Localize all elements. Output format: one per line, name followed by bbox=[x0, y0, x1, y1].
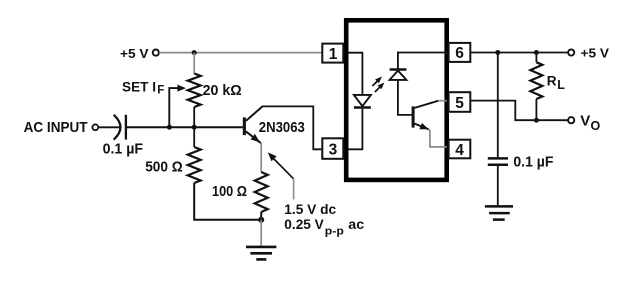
photodiode D2 wire to pin 6 bbox=[398, 53, 447, 69]
wire 20k bottom bbox=[193, 107, 195, 127]
wire +5V rail to pin 1 bbox=[159, 52, 322, 54]
svg-text:+5 V: +5 V bbox=[120, 46, 149, 61]
phototransistor Q2 collector bbox=[415, 101, 439, 108]
ground right bbox=[485, 205, 513, 208]
capacitor C 0.1uF straight plate bbox=[125, 115, 127, 140]
junction dot RL top bbox=[534, 50, 539, 55]
photodiode D2 cathode bar bbox=[390, 68, 407, 70]
svg-text:R: R bbox=[547, 74, 557, 89]
wire 20k top bbox=[193, 53, 195, 74]
terminal AC input bbox=[92, 124, 98, 130]
svg-text:3: 3 bbox=[329, 142, 338, 159]
svg-text:F: F bbox=[157, 85, 164, 97]
wire emitter down bbox=[260, 143, 262, 172]
svg-text:AC INPUT: AC INPUT bbox=[24, 119, 88, 136]
junction dot bypass cap bbox=[495, 50, 500, 55]
phototransistor Q2 base bar bbox=[412, 106, 415, 127]
wire AC input to capacitor bbox=[98, 126, 119, 128]
terminal VO bbox=[568, 117, 574, 123]
junction dot RL bottom bbox=[534, 118, 539, 123]
resistor RL bbox=[535, 53, 537, 63]
wire photodiode to base bbox=[398, 80, 412, 115]
pin 4 box bbox=[449, 140, 471, 159]
wire pin 6 to +5V right bbox=[470, 52, 568, 54]
svg-text:p-p: p-p bbox=[325, 225, 344, 237]
pin 6 box bbox=[449, 43, 471, 62]
photodiode D2 triangle bbox=[390, 71, 407, 80]
svg-text:2N3063: 2N3063 bbox=[259, 119, 305, 136]
junction dot ground bus bbox=[258, 217, 264, 223]
resistor 100 Ohm bbox=[255, 172, 268, 212]
transistor Q1 emitter with arrow bbox=[246, 131, 261, 143]
pin 1 box bbox=[322, 44, 343, 63]
transistor Q1 2N3063 base bar bbox=[243, 117, 246, 135]
svg-text:V: V bbox=[580, 112, 590, 129]
wire bypass cap bottom bbox=[497, 166, 499, 205]
svg-text:ac: ac bbox=[348, 216, 364, 232]
junction dot SET arrow bbox=[167, 125, 172, 130]
wire collector to pin 5 bbox=[438, 100, 447, 102]
wire LED to pin3 bbox=[349, 109, 363, 150]
wire pin 5 to VO bbox=[470, 101, 568, 121]
pin 3 box bbox=[322, 138, 343, 159]
resistor 500 Ohm bbox=[188, 147, 201, 183]
phototransistor Q2 emitter with arrow bbox=[415, 124, 429, 130]
wire pin1 to LED bbox=[349, 53, 363, 95]
light arrow 2 bbox=[375, 87, 380, 92]
svg-text:1.5 V dc: 1.5 V dc bbox=[284, 201, 336, 217]
wire 500 bottom to ground bus bbox=[194, 183, 261, 220]
svg-text:0.1 µF: 0.1 µF bbox=[103, 141, 144, 157]
LED D1 triangle bbox=[354, 95, 371, 106]
wire emitter to pin 4 bbox=[429, 129, 447, 147]
svg-text:500 Ω: 500 Ω bbox=[145, 160, 183, 176]
capacitor C 0.1uF curved plate bbox=[114, 115, 121, 140]
svg-text:5: 5 bbox=[455, 95, 464, 112]
LED D1 cathode bar bbox=[354, 106, 371, 108]
svg-text:O: O bbox=[591, 119, 601, 133]
wire bypass cap top bbox=[497, 53, 499, 158]
svg-text:0.25 V: 0.25 V bbox=[284, 216, 324, 232]
terminal +5V left bbox=[153, 50, 159, 56]
svg-text:20 kΩ: 20 kΩ bbox=[203, 83, 242, 99]
svg-text:L: L bbox=[557, 78, 565, 92]
junction dot 20k/500 bbox=[192, 125, 197, 130]
svg-text:100 Ω: 100 Ω bbox=[212, 184, 247, 200]
wire capacitor to transistor base bbox=[127, 126, 243, 128]
wire to left ground bbox=[260, 220, 262, 246]
transistor Q1 collector bbox=[246, 106, 263, 121]
light arrow 1 bbox=[372, 81, 377, 86]
resistor 20 kOhm bbox=[188, 74, 201, 107]
terminal +5V right bbox=[568, 49, 574, 55]
wire 100 bottom bbox=[260, 212, 262, 220]
svg-text:6: 6 bbox=[455, 45, 464, 62]
wire collector to pin 3 bbox=[262, 106, 322, 149]
arrow 1.5V annotation bbox=[268, 152, 277, 161]
pin 5 box bbox=[449, 92, 471, 112]
wire 500 top bbox=[193, 127, 195, 147]
capacitor C2 0.1uF plates bbox=[488, 157, 508, 160]
junction dot +5V / 20k bbox=[192, 50, 197, 55]
svg-text:1: 1 bbox=[329, 46, 338, 63]
svg-text:+5 V: +5 V bbox=[581, 46, 610, 61]
svg-text:0.1 µF: 0.1 µF bbox=[513, 153, 553, 170]
svg-text:SET I: SET I bbox=[122, 79, 156, 95]
ground left bbox=[246, 246, 276, 249]
arrow SET IF wiper bbox=[169, 88, 178, 126]
optocoupler U1 package outline bbox=[346, 20, 447, 180]
svg-text:4: 4 bbox=[455, 142, 464, 159]
